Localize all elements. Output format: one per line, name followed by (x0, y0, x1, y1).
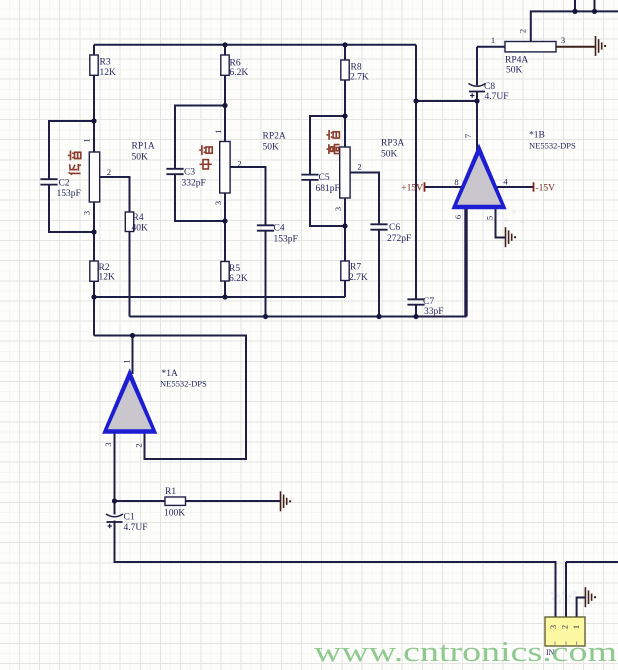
label 6.2K (230, 68, 249, 78)
U1A pin 1 (122, 359, 132, 363)
wire U1A pin3 down (114, 430, 116, 501)
RP4A pin 2 (518, 29, 528, 33)
node mid bus A (222, 294, 227, 299)
label R6 (230, 58, 241, 68)
wire bus A y=297 (94, 296, 345, 298)
svg-text:2: 2 (237, 159, 241, 169)
svg-text:3: 3 (561, 35, 565, 45)
U1B pin 7 (463, 134, 473, 138)
svg-text:6: 6 (453, 215, 463, 219)
label 4.7UF (124, 523, 148, 533)
wire U1B pin7 top / C8 top (476, 47, 478, 86)
resistor R3 (90, 55, 98, 75)
svg-text:12K: 12K (99, 272, 116, 282)
svg-text:3: 3 (213, 201, 223, 205)
svg-text:R4: R4 (133, 213, 144, 223)
capacitor C1 electrolytic (106, 514, 123, 528)
svg-text:2: 2 (134, 443, 144, 447)
RP2A pin 3 (213, 201, 223, 205)
wire R4 bottom to bus B (129, 232, 131, 317)
svg-text:332pF: 332pF (182, 178, 206, 188)
wire RP4A pin3 to ground (556, 46, 596, 48)
svg-text:C3: C3 (184, 167, 195, 177)
svg-text:6.2K: 6.2K (230, 68, 249, 78)
connector IN (545, 617, 585, 646)
wire connector pin1 to ground (577, 598, 586, 618)
svg-text:7: 7 (463, 134, 473, 138)
label 2.7K (349, 273, 368, 283)
svg-text:2: 2 (357, 162, 361, 172)
svg-text:153pF: 153pF (274, 234, 298, 244)
label 40K (132, 223, 149, 233)
label *1B (529, 130, 545, 140)
wire C2 branch (49, 121, 94, 232)
label 50K (263, 142, 280, 152)
connector pin 2 (561, 625, 570, 629)
node bass bus A (91, 294, 96, 299)
RP4A pin 3 (561, 35, 565, 45)
svg-text:272pF: 272pF (387, 234, 411, 244)
wire top edge stub B (594, 0, 596, 11)
node R1 C1 (112, 498, 117, 503)
wire C1 to bottom rail (115, 521, 556, 618)
svg-text:1: 1 (491, 35, 495, 45)
U1A pin 2 (134, 443, 144, 447)
svg-text:1: 1 (572, 625, 581, 629)
connector pin stubs (555, 642, 577, 647)
label C8 (484, 82, 495, 92)
label IN (546, 648, 555, 657)
svg-text:50K: 50K (132, 152, 149, 162)
capacitor C5 (301, 175, 318, 180)
svg-text:50K: 50K (381, 149, 398, 159)
label 272pF (387, 234, 411, 244)
wire C6 bottom to bus B (378, 230, 380, 317)
wire mid chain vertical x=225 (224, 45, 226, 297)
capacitor C4 (257, 225, 274, 230)
label 33pF (424, 307, 444, 317)
svg-text:4.7UF: 4.7UF (124, 523, 148, 533)
label RP1A (132, 141, 155, 151)
capacitor C2 (40, 179, 57, 184)
RP2A pin 2 (237, 159, 241, 169)
svg-text:2: 2 (518, 29, 528, 33)
node U1A pin1 (130, 333, 135, 338)
wire U1B pin5 to ground (496, 207, 506, 238)
op-amp U1A (102, 368, 157, 434)
potentiometer RP2A (220, 142, 230, 194)
label R3 (100, 57, 111, 67)
RP1A pin 2 (107, 167, 111, 177)
power port +15V (401, 182, 424, 193)
RP4A pin 1 (491, 35, 495, 45)
wire bus B y=316.5 (130, 316, 467, 318)
ground at R1 (281, 491, 292, 511)
connector pin 3 (549, 625, 558, 629)
resistor R6 (221, 55, 229, 75)
svg-text:1: 1 (82, 138, 92, 142)
svg-text:RP1A: RP1A (132, 141, 155, 151)
svg-text:C5: C5 (319, 173, 330, 183)
svg-text:3: 3 (82, 211, 92, 215)
label 50K (381, 149, 398, 159)
svg-text:3: 3 (549, 625, 558, 629)
ground at RP4A pin3 (596, 36, 607, 56)
wire node to C1 (114, 501, 116, 515)
wire U1A pin1 (132, 336, 134, 375)
svg-text:*1B: *1B (529, 130, 545, 140)
op-amp U1B (451, 144, 506, 210)
U1A pin 3 (103, 442, 113, 446)
resistor R8 (341, 60, 349, 80)
label R4 (133, 213, 144, 223)
wire RP2A wiper to C4 (230, 167, 266, 225)
U1B pin 4 (503, 177, 508, 187)
label bass (Chinese) (68, 150, 81, 174)
svg-text:1: 1 (122, 359, 132, 363)
capacitor C3 (166, 169, 183, 174)
svg-text:C4: C4 (274, 223, 285, 233)
node top R6 (222, 42, 227, 47)
RP1A pin 1 (82, 138, 92, 142)
watermark (decorative) (495, 210, 524, 224)
node top right A (572, 9, 577, 14)
label 153pF (57, 189, 81, 199)
resistor R7 (341, 261, 349, 281)
potentiometer RP1A (89, 152, 99, 202)
node bass C2 top (91, 118, 96, 123)
U1B pin 8 (454, 177, 458, 187)
node top right B (592, 9, 597, 14)
label 4.7UF (485, 92, 509, 102)
svg-text:8: 8 (454, 177, 458, 187)
wire top bus y=45 (94, 44, 416, 46)
wire treble chain vertical x=345 (344, 45, 346, 297)
wire U1B pin6 output (thick) (464, 205, 467, 317)
label 153pF (274, 234, 298, 244)
svg-text:3: 3 (333, 207, 343, 211)
label RP3A (381, 138, 404, 148)
wire RP3A wiper to C6 (350, 173, 379, 225)
wire C8 node to feedback vertical (416, 100, 477, 102)
svg-text:RP2A: RP2A (263, 131, 286, 141)
node top R8 (342, 42, 347, 47)
label C2 (59, 178, 70, 188)
U1B pin 6 (453, 215, 463, 219)
svg-text:50K: 50K (506, 65, 523, 75)
capacitor C8 electrolytic (469, 84, 486, 98)
label 12K (100, 68, 117, 78)
svg-text:+15V: +15V (401, 184, 423, 194)
svg-text:C2: C2 (59, 178, 70, 188)
svg-text:R2: R2 (99, 263, 110, 273)
svg-text:NE5532-DPS: NE5532-DPS (160, 378, 207, 388)
node mid C3 bottom (222, 218, 227, 223)
label NE5532-DPS (529, 140, 576, 150)
wire R1 node to ground (115, 500, 281, 502)
node treble C5 top (342, 113, 347, 118)
svg-text:50K: 50K (263, 142, 280, 152)
node C4 bus B (263, 314, 268, 319)
label mid (Chinese) (199, 145, 212, 169)
svg-text:2: 2 (107, 167, 111, 177)
svg-text:www.cntronics.com: www.cntronics.com (314, 636, 618, 668)
wire C3 branch (175, 106, 225, 222)
svg-text:153pF: 153pF (57, 189, 81, 199)
label RP4A (505, 55, 528, 65)
svg-text:C7: C7 (423, 297, 434, 307)
label R1 (165, 487, 176, 497)
svg-text:R3: R3 (100, 57, 111, 67)
svg-text:*1A: *1A (162, 369, 179, 379)
potentiometer RP4A (505, 42, 556, 52)
svg-text:33pF: 33pF (424, 307, 444, 317)
label C5 (319, 173, 330, 183)
ground at connector pin1 (585, 587, 596, 607)
svg-text:R1: R1 (165, 487, 176, 497)
svg-text:C1: C1 (124, 512, 135, 522)
svg-text:R8: R8 (351, 62, 362, 72)
label C7 (423, 297, 434, 307)
svg-text:R5: R5 (229, 264, 240, 274)
wire C5 branch (310, 116, 345, 226)
svg-text:C6: C6 (389, 223, 400, 233)
label treble (Chinese) (326, 130, 339, 154)
wire U1B pins 8-4 rail (425, 186, 534, 188)
label R8 (351, 62, 362, 72)
label 50K (506, 65, 523, 75)
resistor R5 (221, 262, 229, 282)
svg-text:2: 2 (561, 625, 570, 629)
label 681pF (316, 184, 340, 194)
U1B pin 5 (485, 216, 495, 220)
label C6 (389, 223, 400, 233)
node treble C5 bottom (342, 223, 347, 228)
label *1A (162, 369, 179, 379)
svg-text:RP3A: RP3A (381, 138, 404, 148)
svg-text:681pF: 681pF (316, 184, 340, 194)
label 100K (164, 508, 185, 518)
label R7 (350, 262, 361, 272)
svg-text:R7: R7 (350, 262, 361, 272)
svg-text:100K: 100K (164, 508, 185, 518)
label RP2A (263, 131, 286, 141)
node C8 left (413, 98, 418, 103)
wire RP4A pin2 to top edge bus (531, 11, 618, 41)
svg-text:5: 5 (485, 216, 495, 220)
node mid C3 top (222, 103, 227, 108)
wire top edge stub A (574, 0, 576, 11)
svg-text:C8: C8 (484, 82, 495, 92)
svg-text:4.7UF: 4.7UF (485, 92, 509, 102)
label C1 (124, 512, 135, 522)
wire feedback vertical x=416 lower (415, 305, 417, 317)
label R5 (229, 264, 240, 274)
wire right rail to connector pin2 (566, 562, 618, 617)
resistor R4 (125, 212, 133, 232)
svg-text:RP4A: RP4A (505, 55, 528, 65)
svg-text:NE5532-DPS: NE5532-DPS (529, 140, 576, 150)
RP1A pin 3 (82, 211, 92, 215)
ground at U1B pin5 (506, 227, 517, 247)
wire feedback vertical x=416 upper (415, 45, 417, 299)
node C6 bus B (376, 314, 381, 319)
node C8 bottom (474, 98, 479, 103)
label 2.7K (350, 72, 369, 82)
svg-text:1: 1 (213, 129, 223, 133)
label 50K (132, 152, 149, 162)
svg-text:40K: 40K (132, 223, 149, 233)
svg-text:2.7K: 2.7K (350, 72, 369, 82)
wire RP1A wiper to R4 (100, 177, 130, 212)
svg-text:4: 4 (503, 177, 508, 187)
node C7 bus B (413, 314, 418, 319)
svg-text:R6: R6 (230, 58, 241, 68)
label 6.2K (229, 274, 248, 284)
resistor R1 (165, 497, 186, 505)
label 12K (99, 272, 116, 282)
resistor R2 (90, 261, 98, 281)
label NE5532-DPS (160, 378, 207, 388)
RP3A pin 2 (357, 162, 361, 172)
wire bass chain vertical x=94 (93, 45, 95, 336)
RP3A pin 3 (333, 207, 343, 211)
potentiometer RP3A (340, 147, 350, 198)
node bass C2 bottom (91, 229, 96, 234)
svg-text:3: 3 (103, 442, 113, 446)
connector pin 1 (572, 625, 581, 629)
label C4 (274, 223, 285, 233)
label R2 (99, 263, 110, 273)
svg-text:12K: 12K (100, 68, 117, 78)
wire bus C to U1A feedback loop (94, 336, 246, 460)
capacitor C7 (407, 299, 424, 304)
svg-text:-15V: -15V (536, 184, 556, 194)
svg-text:6.2K: 6.2K (229, 274, 248, 284)
wire RP4A pin1 (477, 46, 505, 48)
wire C8 bottom to U1B pin7 (476, 92, 478, 153)
capacitor C6 (370, 224, 387, 229)
RP2A pin 1 (213, 129, 223, 133)
label 332pF (182, 178, 206, 188)
label C3 (184, 167, 195, 177)
power port -15V (534, 182, 556, 193)
svg-text:2.7K: 2.7K (349, 273, 368, 283)
wire C4 bottom to bus B (265, 231, 267, 317)
